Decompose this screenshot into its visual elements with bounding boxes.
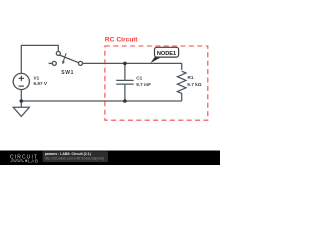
svg-text:LAB: LAB	[28, 158, 39, 163]
svg-text:6.97 V: 6.97 V	[34, 81, 48, 86]
svg-text:R1: R1	[188, 75, 194, 80]
svg-text:SW1: SW1	[61, 70, 74, 76]
svg-text:RC Circuit: RC Circuit	[105, 37, 138, 44]
svg-text:NODE1: NODE1	[157, 51, 176, 57]
svg-text:C1: C1	[136, 76, 142, 81]
svg-text:V1: V1	[34, 75, 40, 80]
svg-text:9.7 kΩ: 9.7 kΩ	[187, 82, 201, 87]
svg-text:params : LABII: Circuit (2.1): params : LABII: Circuit (2.1)	[45, 152, 91, 156]
svg-text:9.7 mF: 9.7 mF	[136, 82, 151, 87]
svg-text:http://circuitlab.com/c/657pha: http://circuitlab.com/c/657phase/lq8ysvf…	[45, 156, 105, 160]
